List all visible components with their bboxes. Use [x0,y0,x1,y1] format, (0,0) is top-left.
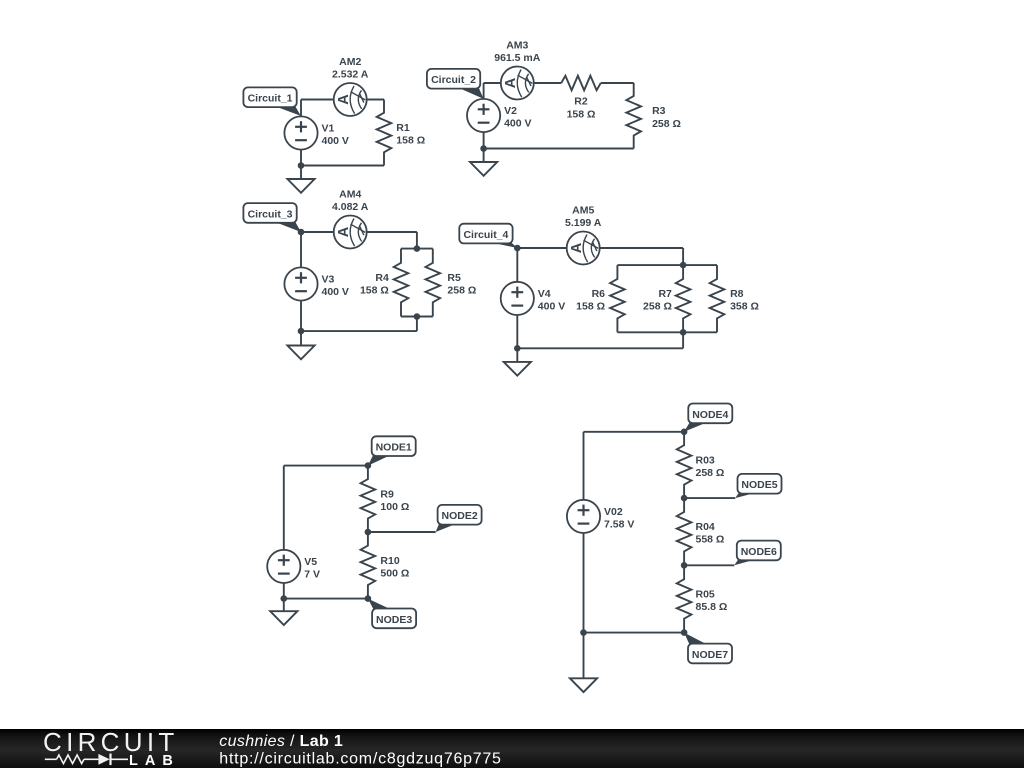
svg-text:R4: R4 [375,272,389,284]
svg-text:961.5 mA: 961.5 mA [494,52,541,64]
svg-text:7.58 V: 7.58 V [604,518,634,530]
voltage source V4 [501,282,566,315]
svg-text:Circuit_4: Circuit_4 [463,229,508,241]
node NODE3 junction [365,595,372,602]
ground [470,149,497,176]
svg-text:R3: R3 [652,105,666,117]
ammeter AM2 [332,56,369,116]
svg-text:158 Ω: 158 Ω [360,285,389,297]
svg-text:http://circuitlab.com/c8gdzuq7: http://circuitlab.com/c8gdzuq76p775 [219,751,501,768]
svg-text:AM2: AM2 [339,56,361,68]
ground [287,331,314,359]
resistor R8 [710,265,759,332]
wire [401,248,433,250]
node label NODE1 [368,436,416,465]
svg-text:500 Ω: 500 Ω [380,567,409,579]
wire [617,331,717,333]
ground [570,633,597,693]
junction [680,262,687,269]
svg-text:V2: V2 [504,105,517,117]
junction [680,329,687,336]
node label NODE2 [436,505,482,532]
wire [300,150,302,166]
wire [517,247,683,249]
wire [516,248,518,282]
ground [270,599,297,625]
junction [414,245,421,252]
wire [684,497,735,499]
wire [484,82,562,84]
svg-text:258 Ω: 258 Ω [643,301,672,313]
node label Circuit_4 [459,224,517,248]
svg-text:158 Ω: 158 Ω [567,108,596,120]
ammeter AM3 [494,40,541,100]
svg-text:V4: V4 [538,288,551,300]
wire [300,232,302,267]
junction [281,595,288,602]
wire [284,598,368,600]
resistor R05 [677,565,727,632]
wire [284,465,368,467]
svg-text:AM4: AM4 [339,189,361,201]
svg-text:R5: R5 [447,272,461,284]
svg-text:R05: R05 [696,589,715,601]
svg-text:V5: V5 [304,556,317,568]
wire [583,533,585,633]
ground [504,348,531,375]
resistor R7 [643,265,690,332]
node label NODE3 [368,599,416,629]
resistor R9 [361,466,410,532]
svg-text:NODE5: NODE5 [741,479,777,491]
svg-text:AM5: AM5 [572,205,594,217]
svg-text:Circuit_1: Circuit_1 [248,93,293,105]
resistor R5 [426,249,477,317]
node label NODE5 [735,474,781,498]
resistor R03 [677,432,725,498]
svg-text:R10: R10 [380,555,399,567]
svg-text:400 V: 400 V [504,118,531,130]
wire [601,82,634,84]
node NODE4 junction [681,429,688,436]
node NODE1 junction [365,462,372,469]
svg-text:85.8 Ω: 85.8 Ω [696,601,728,613]
wire [684,564,734,566]
voltage source V2 [467,99,532,132]
logo resistor-diode line [45,754,128,766]
resistor R3 [626,83,681,149]
svg-text:cushnies / Lab 1: cushnies / Lab 1 [219,733,343,750]
svg-text:258 Ω: 258 Ω [652,118,681,130]
svg-text:R8: R8 [730,288,744,300]
svg-text:R04: R04 [696,521,715,533]
resistor R1 [377,100,425,166]
node NODE5 junction [681,495,688,502]
junction [414,313,421,320]
svg-text:Circuit_3: Circuit_3 [248,208,293,220]
svg-text:LAB: LAB [129,753,180,768]
wire [483,132,485,148]
node NODE2 junction [365,529,372,536]
node label NODE6 [734,541,781,566]
wire [301,231,417,233]
svg-text:NODE3: NODE3 [376,614,412,626]
wire [484,148,634,150]
svg-text:2.532 A: 2.532 A [332,69,369,81]
junction [480,145,487,152]
wire [368,531,436,533]
svg-text:R9: R9 [380,488,394,500]
svg-text:R1: R1 [396,122,410,134]
wire [483,83,485,99]
svg-text:R03: R03 [696,455,715,467]
wire [416,232,418,249]
node NODE7 junction [681,629,688,636]
wire [300,301,302,332]
svg-text:400 V: 400 V [322,286,349,298]
svg-text:NODE2: NODE2 [442,510,478,522]
svg-text:400 V: 400 V [322,135,349,147]
voltage source V1 [284,116,349,149]
svg-text:Circuit_2: Circuit_2 [431,74,476,86]
svg-text:4.082 A: 4.082 A [332,201,369,213]
resistor R10 [361,532,410,599]
svg-text:V02: V02 [604,506,623,518]
wire [301,165,384,167]
junction [514,345,521,352]
wire [300,100,302,117]
voltage source V3 [284,267,349,300]
wire [283,466,285,550]
wire [583,432,585,500]
junction [514,245,521,252]
svg-text:R7: R7 [658,288,672,300]
resistor R2 [561,76,601,121]
svg-text:258 Ω: 258 Ω [447,285,476,297]
svg-text:7 V: 7 V [304,568,320,580]
wire [301,99,384,101]
svg-text:NODE1: NODE1 [376,442,412,454]
node label Circuit_2 [427,69,484,99]
junction [298,328,305,335]
wire [682,248,684,265]
resistor R4 [360,249,408,317]
svg-text:AM3: AM3 [506,40,528,52]
svg-text:NODE7: NODE7 [692,649,728,661]
wire [584,632,685,634]
svg-text:NODE4: NODE4 [692,409,728,421]
wire [617,264,717,266]
wire [401,316,433,318]
footer bar [0,729,1024,768]
wire [516,315,518,348]
svg-text:158 Ω: 158 Ω [576,301,605,313]
resistor R6 [576,265,625,332]
voltage source V02 [567,500,634,533]
svg-text:NODE6: NODE6 [741,546,777,558]
junction [298,229,305,236]
wire [517,347,683,349]
node label NODE7 [684,633,732,664]
ammeter AM4 [332,189,369,249]
svg-text:158 Ω: 158 Ω [396,135,425,147]
svg-text:R2: R2 [574,96,588,108]
node label NODE4 [684,404,732,432]
wire [301,330,417,332]
svg-text:100 Ω: 100 Ω [380,501,409,513]
svg-text:V3: V3 [322,274,335,286]
svg-text:358 Ω: 358 Ω [730,301,759,313]
junction [580,629,587,636]
node label Circuit_3 [243,203,301,232]
wire [416,317,418,332]
ammeter AM5 [565,205,602,265]
wire [682,332,684,348]
svg-text:558 Ω: 558 Ω [696,534,725,546]
node label Circuit_1 [243,87,300,116]
svg-text:5.199 A: 5.199 A [565,217,602,229]
junction [298,162,305,169]
wire [283,583,285,599]
svg-text:V1: V1 [322,123,335,135]
svg-text:R6: R6 [592,288,606,300]
svg-text:258 Ω: 258 Ω [696,467,725,479]
wire [584,431,685,433]
resistor R04 [677,498,725,565]
ground [287,166,314,193]
svg-text:400 V: 400 V [538,300,565,312]
voltage source V5 [267,550,320,583]
node NODE6 junction [681,562,688,569]
